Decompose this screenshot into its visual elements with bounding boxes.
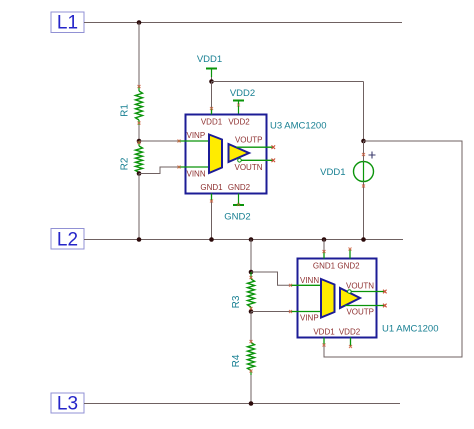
- svg-text:GND2: GND2: [228, 183, 251, 192]
- wire VDD1 loop right: [324, 141, 462, 357]
- svg-text:VDD1: VDD1: [201, 118, 223, 127]
- svg-text:R2: R2: [120, 157, 131, 170]
- wire L2 to U1 GND1: [323, 240, 325, 252]
- wire R1 to node: [138, 125, 140, 141]
- node L2 x324: [322, 237, 327, 242]
- node R3 bottom junction: [249, 309, 254, 314]
- node L3 junction: [249, 401, 254, 406]
- resistor R1: [136, 86, 143, 125]
- pin VOUTP U3: [237, 146, 274, 148]
- wire U3 VDD1 pin: [211, 82, 213, 115]
- wire L1 to R1: [138, 23, 140, 88]
- pin VDD2 U1 stub: [350, 338, 352, 347]
- port L3: [51, 393, 84, 415]
- pin VINN U3: [178, 166, 209, 168]
- pin VINP U1: [291, 311, 322, 313]
- wire source top lead: [363, 141, 365, 162]
- no-connect marks: [138, 85, 366, 373]
- svg-text:U1 AMC1200: U1 AMC1200: [382, 324, 439, 335]
- no-connect marks outputs: [272, 145, 387, 307]
- pin GND1 U1 stub: [323, 252, 325, 259]
- svg-text:GND2: GND2: [224, 212, 250, 223]
- svg-text:L2: L2: [57, 230, 78, 251]
- wire source bottom lead: [363, 182, 365, 240]
- wire VDD1 junction to source column: [212, 81, 364, 83]
- node L1-R1 junction: [137, 20, 142, 25]
- wire GND1 to L2: [211, 201, 213, 240]
- svg-text:GND2: GND2: [337, 262, 360, 271]
- ground GND2: [224, 194, 250, 223]
- svg-text:R1: R1: [120, 104, 131, 117]
- svg-text:VOUTN: VOUTN: [235, 163, 263, 172]
- pin VOUTN U1: [351, 291, 385, 293]
- wire L3 bus: [84, 403, 400, 405]
- pin VINP U3: [178, 140, 209, 142]
- amp output stage U1: [340, 288, 360, 308]
- node R2 bottom junction: [137, 171, 142, 176]
- node L2 x251: [249, 237, 254, 242]
- svg-text:VINN: VINN: [187, 170, 206, 179]
- wire R4 to L3: [250, 375, 252, 404]
- wire VDD1 bar to junction: [211, 77, 213, 82]
- pin VOUTN U3: [242, 159, 274, 161]
- wire L2 down to R3: [250, 240, 252, 273]
- pin VOUTP U1: [345, 305, 385, 307]
- wire R2 to L2: [138, 174, 140, 240]
- amp input stage U1: [321, 279, 335, 318]
- wire L2 bus: [84, 239, 403, 241]
- svg-text:VDD2: VDD2: [228, 118, 250, 127]
- wire R3 to R4: [250, 312, 252, 343]
- svg-text:VINP: VINP: [300, 314, 319, 323]
- wire VDD1 down to source: [363, 82, 365, 142]
- wire node to U1 VINP: [251, 311, 291, 313]
- svg-text:VOUTP: VOUTP: [346, 308, 374, 317]
- node L2 x211: [209, 237, 214, 242]
- svg-text:VDD1: VDD1: [320, 167, 345, 178]
- pin GND1 U3 stub: [211, 194, 213, 201]
- pin VDD1 U1 stub: [323, 338, 325, 345]
- svg-text:GND1: GND1: [200, 183, 223, 192]
- power VDD2: [230, 88, 255, 115]
- node R3 top junction: [249, 270, 254, 275]
- power VDD1 top: [197, 54, 222, 77]
- port L1: [51, 12, 84, 34]
- svg-text:U3 AMC1200: U3 AMC1200: [270, 121, 327, 132]
- svg-text:R4: R4: [231, 354, 242, 367]
- node VDD1 junction: [209, 79, 214, 84]
- amp output stage U3: [229, 144, 250, 162]
- node source top junction: [361, 139, 366, 144]
- wire node to VINP pin: [139, 140, 179, 142]
- op-amp U1 body: [298, 259, 377, 338]
- resistor R3: [248, 272, 255, 312]
- resistor R2: [136, 141, 143, 173]
- pin VINN U1: [291, 284, 322, 286]
- svg-text:L3: L3: [57, 394, 78, 415]
- source VDD1: [320, 152, 375, 182]
- svg-text:VINN: VINN: [300, 276, 319, 285]
- node L2 x139: [137, 237, 142, 242]
- svg-text:VDD1: VDD1: [197, 54, 222, 65]
- node VINP junction: [137, 139, 142, 144]
- bubble VOUTN U1: [348, 290, 352, 294]
- resistor R4: [248, 343, 255, 376]
- svg-text:VOUTP: VOUTP: [235, 136, 263, 145]
- svg-text:L1: L1: [57, 13, 78, 34]
- op-amp U3 body: [186, 115, 267, 194]
- amp input stage U3: [209, 135, 222, 174]
- wire node to U1 VINN: [251, 272, 291, 285]
- port L2: [51, 229, 84, 251]
- wire node to VINN pin: [139, 167, 179, 174]
- svg-text:VOUTN: VOUTN: [346, 282, 374, 291]
- svg-text:VINP: VINP: [187, 131, 206, 140]
- pin GND2 U1 stub: [349, 249, 351, 259]
- wire L1 bus: [84, 22, 402, 24]
- bubble VOUTN U3: [238, 159, 242, 163]
- svg-text:VDD2: VDD2: [230, 88, 255, 99]
- svg-text:VDD2: VDD2: [339, 328, 361, 337]
- node L2 x363: [361, 237, 366, 242]
- svg-text:VDD1: VDD1: [313, 328, 335, 337]
- pin VDD1 U3 stub: [211, 108, 213, 115]
- svg-text:R3: R3: [231, 295, 242, 308]
- svg-text:GND1: GND1: [313, 262, 336, 271]
